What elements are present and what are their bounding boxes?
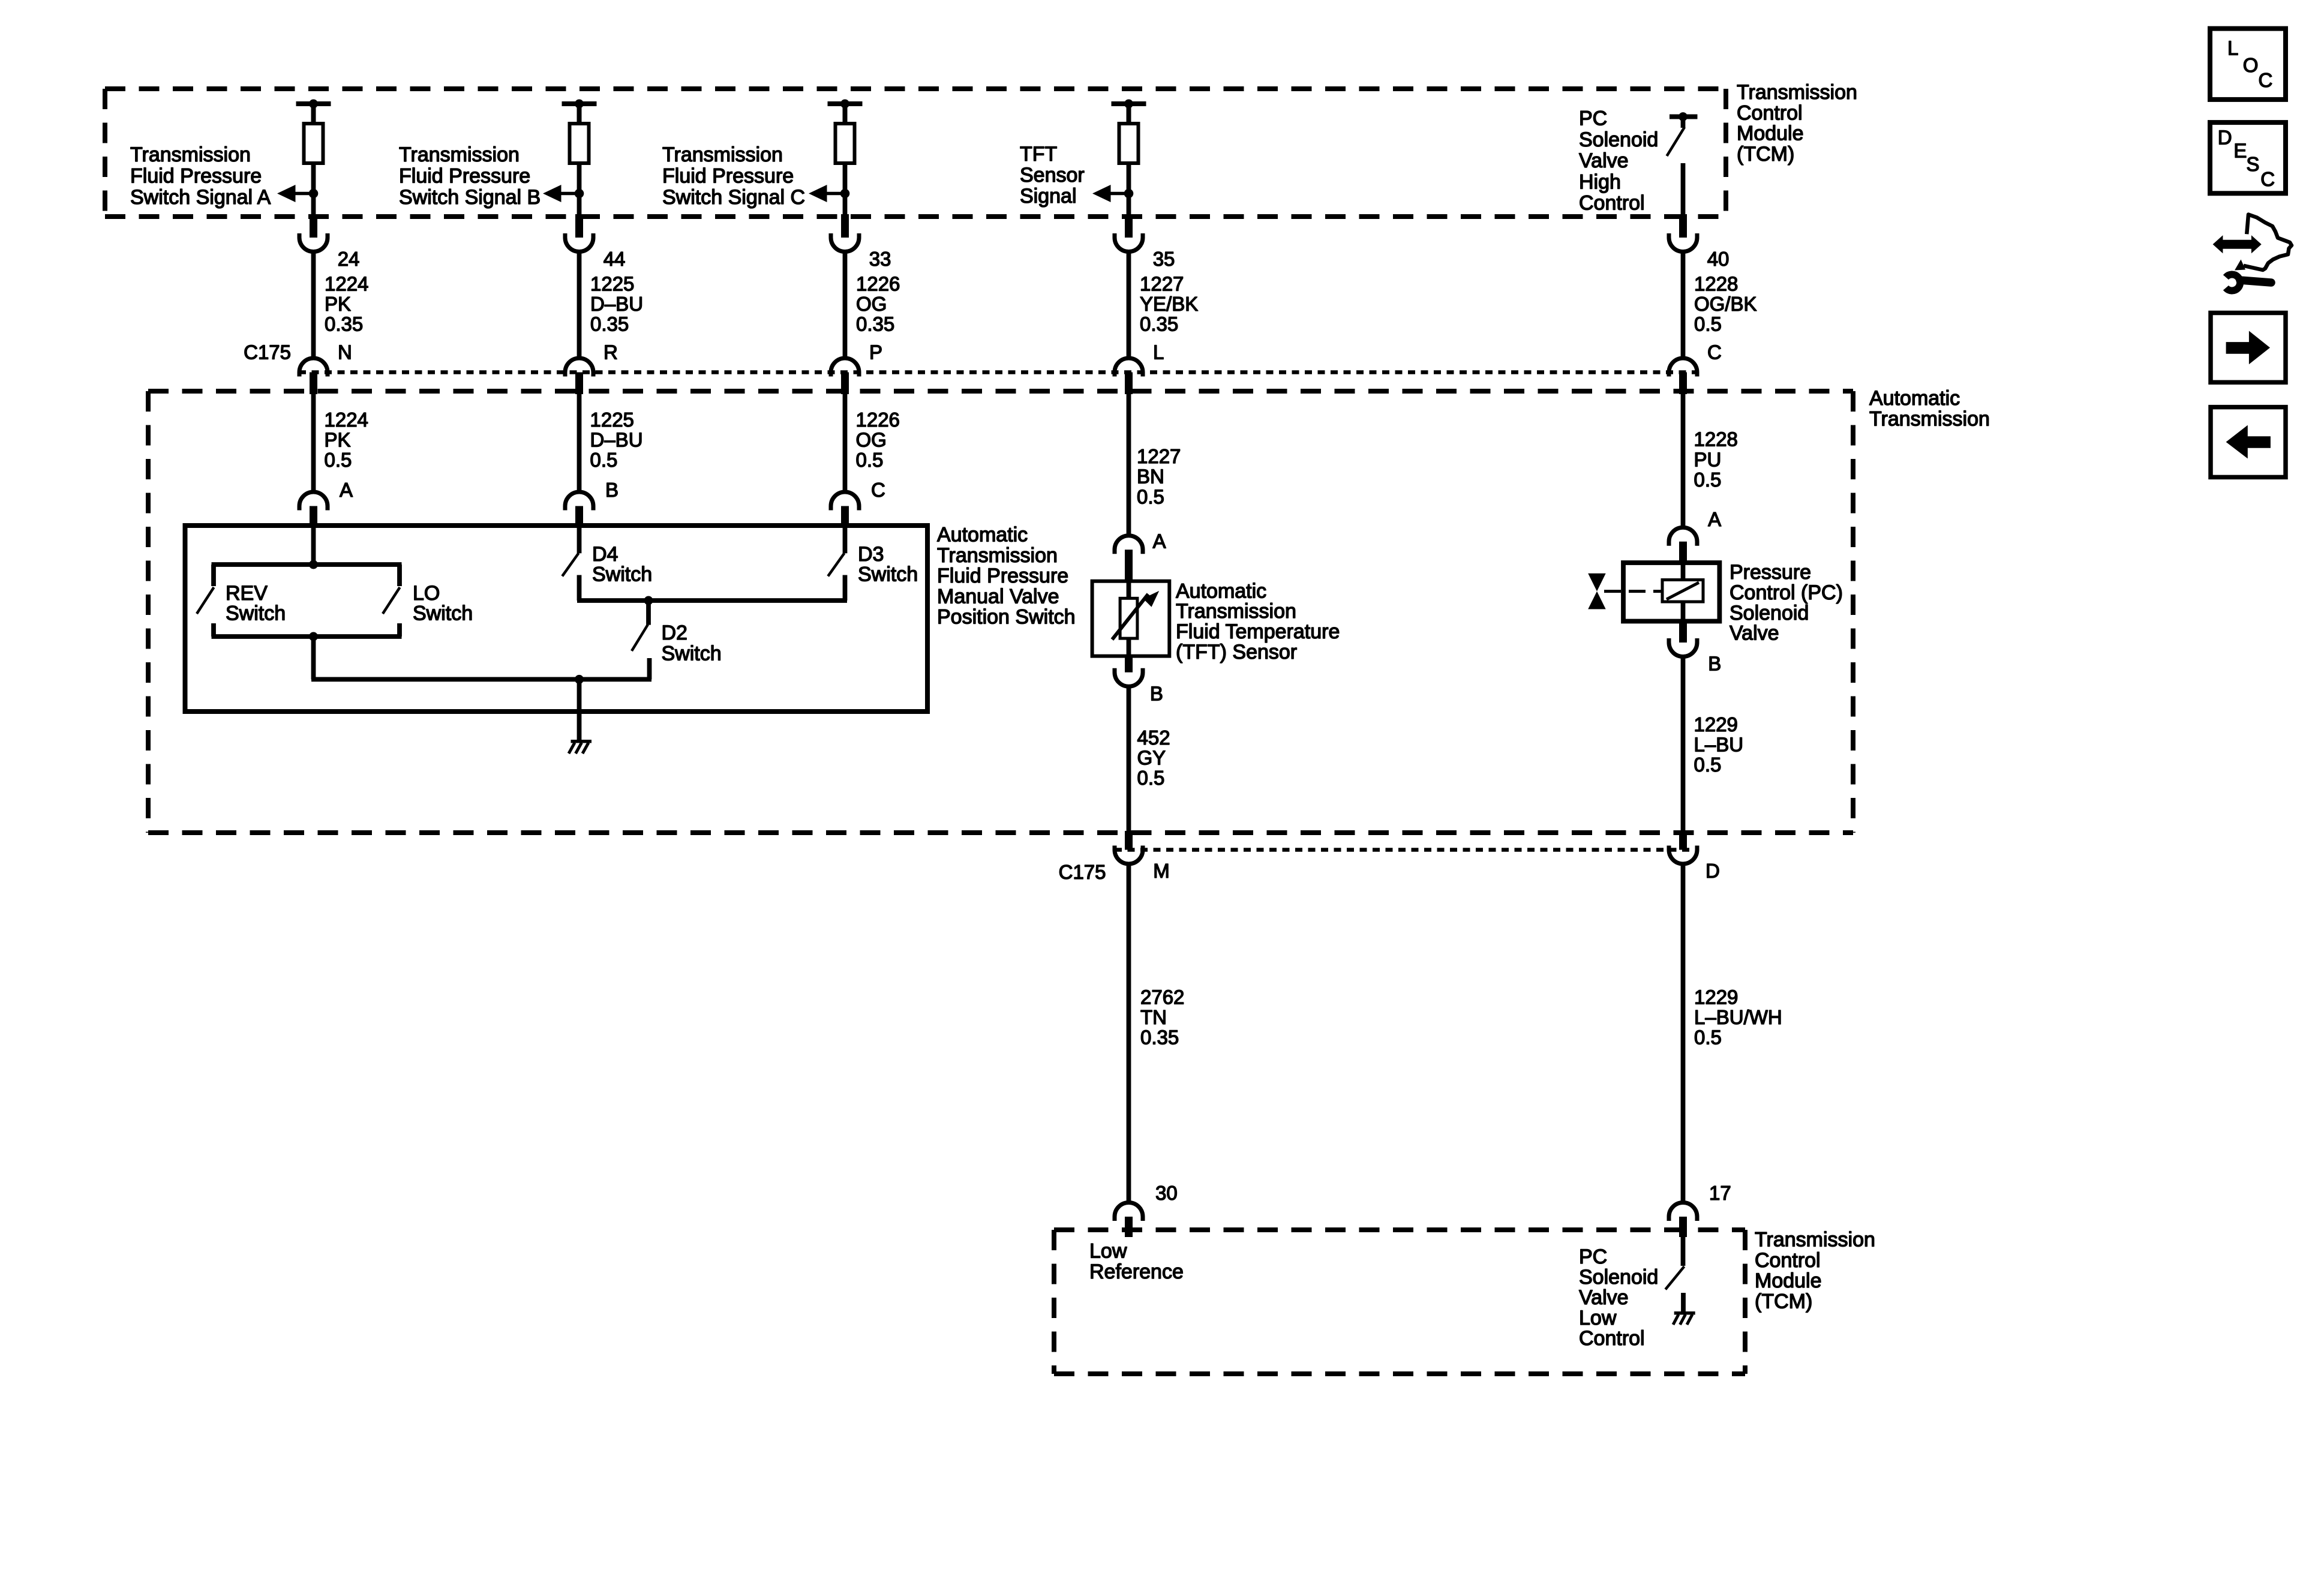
svg-text:D: D xyxy=(1706,860,1720,882)
pin 40 and wire 1228 OG/BK 0.5 xyxy=(1694,248,1757,335)
wire D4-D3 net xyxy=(577,596,847,605)
svg-text:Module: Module xyxy=(1755,1269,1822,1292)
dashed mechanical link valve-solenoid xyxy=(1604,590,1662,593)
svg-text:1226: 1226 xyxy=(856,409,900,431)
svg-text:0.35: 0.35 xyxy=(590,313,629,335)
wire 1224 PK 0.5 xyxy=(325,409,368,471)
svg-text:Solenoid: Solenoid xyxy=(1579,128,1658,151)
wire 1225 D-BU 0.5 xyxy=(590,409,643,471)
svg-text:Transmission: Transmission xyxy=(1176,600,1296,623)
svg-text:0.5: 0.5 xyxy=(1694,754,1722,776)
node: wire A junction top of REV/LO frame xyxy=(309,528,318,569)
label TFT Sensor Signal xyxy=(1020,143,1085,208)
svg-text:Control: Control xyxy=(1755,1249,1821,1272)
terminal stub col B row1 xyxy=(575,214,583,238)
svg-text:N: N xyxy=(338,341,352,363)
svg-text:Transmission: Transmission xyxy=(399,143,520,166)
wire col B C175 to terminal B xyxy=(577,394,582,493)
svg-text:D2: D2 xyxy=(662,622,687,644)
connector C175 dotted line top xyxy=(299,370,1698,374)
terminal arc B of TFT sensor xyxy=(1115,668,1143,687)
wire crossbar col B xyxy=(562,100,597,109)
svg-text:GY: GY xyxy=(1137,747,1166,769)
pin 24 and wire 1224 PK 0.35 xyxy=(325,248,368,335)
label PC Solenoid Valve Low Control xyxy=(1579,1245,1658,1350)
svg-text:1225: 1225 xyxy=(590,409,634,431)
terminal arc PC row1 (terminal 40) xyxy=(1669,233,1697,251)
svg-text:0.35: 0.35 xyxy=(325,313,363,335)
icon forward arrow box xyxy=(2211,313,2286,383)
svg-text:R: R xyxy=(603,341,618,363)
svg-text:Switch: Switch xyxy=(592,563,652,586)
wire D down to TCM xyxy=(1681,864,1686,1203)
svg-text:OG: OG xyxy=(856,429,887,451)
wire crossbar col C xyxy=(828,100,863,109)
svg-text:D: D xyxy=(2218,126,2232,148)
wire 452 GY 0.5 xyxy=(1137,727,1170,789)
svg-text:C175: C175 xyxy=(1059,861,1106,883)
svg-text:C175: C175 xyxy=(244,341,291,363)
svg-text:1224: 1224 xyxy=(325,273,368,295)
svg-text:17: 17 xyxy=(1709,1182,1731,1204)
svg-text:Automatic: Automatic xyxy=(1176,580,1266,602)
C175 arc col T xyxy=(1115,358,1143,394)
svg-text:40: 40 xyxy=(1707,248,1730,270)
wire 1228 PU 0.5 xyxy=(1694,428,1738,491)
svg-text:Solenoid: Solenoid xyxy=(1730,602,1809,625)
svg-text:TN: TN xyxy=(1140,1006,1167,1028)
terminal arc col C row1 xyxy=(831,233,859,251)
icon adjustable component (double arrow + wrench + outline) xyxy=(2213,215,2292,291)
svg-text:0.35: 0.35 xyxy=(1140,1026,1179,1048)
terminal stub B of PC solenoid valve xyxy=(1679,622,1687,643)
terminal arc A of TFT sensor xyxy=(1115,536,1143,582)
svg-text:33: 33 xyxy=(869,248,891,270)
terminal arc B (manual valve position switch) xyxy=(565,492,593,528)
svg-text:Transmission: Transmission xyxy=(1755,1228,1875,1251)
wire PC col to box edge xyxy=(1681,163,1686,217)
svg-text:24: 24 xyxy=(338,248,360,270)
label D4 Switch xyxy=(592,543,652,586)
wire col C to C175 xyxy=(843,252,848,359)
svg-text:1227: 1227 xyxy=(1137,445,1181,467)
svg-text:M: M xyxy=(1153,860,1170,882)
REV switch blade xyxy=(197,587,214,614)
svg-text:1229: 1229 xyxy=(1694,713,1738,736)
svg-text:Control: Control xyxy=(1737,101,1803,124)
wire PC B to AT box edge xyxy=(1681,657,1686,831)
svg-text:O: O xyxy=(2243,54,2259,76)
svg-text:Switch: Switch xyxy=(226,602,286,625)
svg-text:Switch Signal C: Switch Signal C xyxy=(662,186,805,209)
svg-text:1227: 1227 xyxy=(1140,273,1184,295)
svg-text:Control (PC): Control (PC) xyxy=(1730,581,1843,604)
resistor col T (TCM internal) xyxy=(1119,104,1139,163)
svg-text:PU: PU xyxy=(1694,448,1722,470)
svg-text:PC: PC xyxy=(1579,107,1607,130)
svg-text:0.5: 0.5 xyxy=(1694,469,1722,491)
icon back arrow box xyxy=(2211,407,2286,478)
svg-text:Control: Control xyxy=(1579,1327,1645,1350)
svg-text:A: A xyxy=(340,479,353,501)
svg-text:A: A xyxy=(1153,530,1166,553)
label Transmission Fluid Pressure Switch Signal C xyxy=(662,143,805,209)
inner REV/LO switch frame xyxy=(212,565,402,637)
terminal stub PC row1 xyxy=(1679,214,1687,238)
terminal arc col B row1 xyxy=(565,233,593,251)
C175 arc col C xyxy=(831,358,859,394)
terminal stub col T row1 xyxy=(1125,214,1133,238)
terminal arc A of PC solenoid valve xyxy=(1669,527,1697,564)
TCM top box (Transmission Control Module) dashed outline xyxy=(105,89,1726,217)
wire TFT col C175 to terminal A xyxy=(1127,394,1131,536)
wire col C C175 to terminal C xyxy=(843,394,848,493)
svg-text:(TCM): (TCM) xyxy=(1737,143,1794,166)
svg-text:Transmission: Transmission xyxy=(1737,81,1857,104)
svg-text:C: C xyxy=(2260,168,2275,190)
valve bowtie symbol xyxy=(1588,574,1606,610)
PC solenoid valve high control switch (TCM internal) xyxy=(1667,112,1698,156)
PC solenoid valve box xyxy=(1623,563,1719,622)
svg-text:High: High xyxy=(1579,170,1621,193)
svg-text:30: 30 xyxy=(1155,1182,1178,1204)
svg-text:D4: D4 xyxy=(592,543,618,566)
label D3 Switch xyxy=(858,543,918,586)
svg-text:PK: PK xyxy=(325,293,351,315)
svg-text:B: B xyxy=(605,479,618,501)
svg-text:TFT: TFT xyxy=(1020,143,1057,166)
TFT variable-resistor arrow xyxy=(1112,591,1159,640)
D2 switch xyxy=(632,601,650,679)
wire 1226 OG 0.5 xyxy=(856,409,900,471)
svg-text:1228: 1228 xyxy=(1694,273,1738,295)
svg-text:(TCM): (TCM) xyxy=(1755,1290,1812,1313)
svg-text:L–BU: L–BU xyxy=(1694,734,1744,756)
label Automatic Transmission Fluid Temperature (TFT) Sensor xyxy=(1176,580,1340,664)
svg-text:Fluid Temperature: Fluid Temperature xyxy=(1176,620,1340,643)
svg-text:Fluid Pressure: Fluid Pressure xyxy=(130,165,262,188)
svg-text:L: L xyxy=(1153,341,1164,363)
svg-text:P: P xyxy=(869,341,882,363)
svg-text:Fluid Pressure: Fluid Pressure xyxy=(662,165,794,188)
terminal arc bottom TCM (D col) xyxy=(1669,1202,1697,1237)
svg-text:Switch: Switch xyxy=(662,642,722,665)
svg-text:REV: REV xyxy=(226,582,268,605)
svg-text:Transmission: Transmission xyxy=(937,544,1058,567)
svg-text:0.5: 0.5 xyxy=(590,449,618,471)
svg-text:Transmission: Transmission xyxy=(130,143,251,166)
svg-text:OG/BK: OG/BK xyxy=(1694,293,1757,315)
svg-text:Manual Valve: Manual Valve xyxy=(937,585,1059,608)
label Transmission Control Module (TCM) bottom xyxy=(1755,1228,1875,1313)
svg-text:E: E xyxy=(2233,139,2247,161)
svg-text:S: S xyxy=(2246,153,2259,175)
C175 arc col B xyxy=(565,358,593,394)
svg-text:C: C xyxy=(2259,69,2273,91)
ground wire from switch box xyxy=(577,679,582,740)
node: junction bottom of REV/LO frame xyxy=(309,632,318,680)
svg-text:Position Switch: Position Switch xyxy=(937,606,1076,629)
svg-text:Transmission: Transmission xyxy=(662,143,783,166)
icon DESC box xyxy=(2210,122,2286,193)
resistor col C (TCM internal) xyxy=(836,104,855,163)
wire TFT B to AT box edge xyxy=(1127,686,1131,831)
terminal arc A (manual valve position switch) xyxy=(299,492,328,528)
D4 switch xyxy=(562,528,579,601)
svg-text:0.5: 0.5 xyxy=(1137,485,1164,508)
svg-text:Switch Signal B: Switch Signal B xyxy=(399,186,541,209)
connector label C175 bottom xyxy=(1059,861,1106,883)
svg-text:1225: 1225 xyxy=(590,273,634,295)
wire 1229 L-BU 0.5 xyxy=(1694,713,1744,776)
wire col C resistor to junction xyxy=(843,163,848,217)
wire 1229 L-BU/WH 0.5 xyxy=(1694,986,1782,1048)
label Transmission Fluid Pressure Switch Signal A xyxy=(130,143,271,209)
label Automatic Transmission Fluid Pressure Manual Valve Position Switch xyxy=(937,524,1076,629)
svg-text:Valve: Valve xyxy=(1579,1286,1629,1309)
svg-text:Reference: Reference xyxy=(1089,1260,1184,1283)
terminal stub col C row1 xyxy=(841,214,849,238)
svg-text:1224: 1224 xyxy=(325,409,368,431)
svg-text:0.5: 0.5 xyxy=(1694,1026,1722,1048)
wire col T to C175 xyxy=(1127,252,1131,359)
svg-text:L: L xyxy=(2227,37,2238,59)
svg-text:YE/BK: YE/BK xyxy=(1140,293,1198,315)
svg-text:1228: 1228 xyxy=(1694,428,1738,451)
svg-text:B: B xyxy=(1150,682,1163,704)
C175 bottom connector D xyxy=(1669,831,1697,864)
signal tap arrow col B xyxy=(543,185,584,202)
svg-text:B: B xyxy=(1708,652,1721,674)
svg-text:D–BU: D–BU xyxy=(590,429,643,451)
wire PC col C175 to terminal A xyxy=(1681,394,1686,528)
wire crossbar col T xyxy=(1112,100,1146,109)
svg-text:Control: Control xyxy=(1579,192,1645,215)
C175 arc col A xyxy=(299,358,328,394)
terminal stub B of TFT sensor xyxy=(1125,656,1133,673)
pin 33 and wire 1226 OG 0.35 xyxy=(856,248,900,335)
wire 2762 TN 0.35 xyxy=(1140,986,1184,1048)
label D2 Switch xyxy=(662,622,722,665)
solenoid coil rect with diagonal xyxy=(1662,580,1703,622)
signal tap arrow col T xyxy=(1092,185,1133,202)
wire col T resistor to junction xyxy=(1127,163,1131,217)
svg-text:C: C xyxy=(1707,341,1722,363)
svg-text:Transmission: Transmission xyxy=(1869,407,1990,430)
svg-text:1226: 1226 xyxy=(856,273,900,295)
svg-text:OG: OG xyxy=(856,293,887,315)
svg-text:Low: Low xyxy=(1089,1240,1127,1263)
D3 switch xyxy=(828,528,845,601)
terminal arc col A row1 xyxy=(299,233,328,251)
wire M down to TCM xyxy=(1127,864,1131,1203)
wire col A to C175 xyxy=(311,252,316,359)
label LO Switch xyxy=(413,582,473,625)
svg-text:452: 452 xyxy=(1137,727,1170,749)
svg-text:LO: LO xyxy=(413,582,440,605)
TFT sensor box xyxy=(1092,581,1170,656)
svg-text:Switch: Switch xyxy=(858,563,918,586)
terminal stub col A row1 xyxy=(310,214,317,238)
svg-text:Module: Module xyxy=(1737,122,1804,145)
Automatic Transmission dashed box xyxy=(148,391,1853,833)
svg-text:0.5: 0.5 xyxy=(1137,767,1165,789)
terminal arc bottom TCM (M col) xyxy=(1115,1202,1143,1237)
svg-text:0.35: 0.35 xyxy=(1140,313,1178,335)
svg-text:Valve: Valve xyxy=(1730,622,1779,645)
svg-text:Switch Signal A: Switch Signal A xyxy=(130,186,271,209)
svg-text:2762: 2762 xyxy=(1140,986,1184,1008)
terminal arc C (manual valve position switch) xyxy=(831,492,859,528)
svg-text:0.5: 0.5 xyxy=(1694,313,1722,335)
label Transmission Control Module (TCM) top xyxy=(1737,81,1857,166)
svg-text:A: A xyxy=(1708,508,1721,530)
svg-text:L–BU/WH: L–BU/WH xyxy=(1694,1006,1782,1028)
svg-text:C: C xyxy=(871,479,885,501)
PC solenoid valve low control switch (TCM internal) xyxy=(1665,1236,1684,1312)
pin 35 and wire 1227 YE/BK 0.35 xyxy=(1140,248,1198,335)
label Automatic Transmission (box) xyxy=(1869,387,1990,430)
terminal arc B of PC solenoid valve xyxy=(1669,638,1697,657)
svg-text:(TFT) Sensor: (TFT) Sensor xyxy=(1176,641,1297,664)
terminal arc col T row1 xyxy=(1115,233,1143,251)
svg-text:Pressure: Pressure xyxy=(1730,561,1811,584)
svg-text:Switch: Switch xyxy=(413,602,473,625)
svg-text:44: 44 xyxy=(603,248,626,270)
signal tap arrow col C xyxy=(809,185,849,202)
svg-text:0.5: 0.5 xyxy=(325,449,352,471)
pin 44 and wire 1225 D-BU 0.35 xyxy=(590,248,643,335)
svg-text:Fluid Pressure: Fluid Pressure xyxy=(399,165,530,188)
svg-text:Fluid Pressure: Fluid Pressure xyxy=(937,565,1068,587)
connector label C175 top xyxy=(244,341,291,363)
LO switch blade xyxy=(383,587,400,614)
ground symbol (position switch) xyxy=(569,740,591,754)
label Transmission Fluid Pressure Switch Signal B xyxy=(399,143,541,209)
icon LOC box xyxy=(2210,29,2286,100)
svg-text:Automatic: Automatic xyxy=(1869,387,1960,410)
svg-text:Low: Low xyxy=(1579,1307,1617,1329)
label Pressure Control (PC) Solenoid Valve xyxy=(1730,561,1843,645)
resistor col A (TCM internal) xyxy=(304,104,323,163)
svg-text:1229: 1229 xyxy=(1694,986,1738,1008)
wire col A resistor to junction xyxy=(311,163,316,217)
wire lower net to D2 xyxy=(311,675,651,684)
svg-text:Sensor: Sensor xyxy=(1020,164,1085,187)
svg-text:35: 35 xyxy=(1153,248,1175,270)
signal tap arrow col A xyxy=(277,185,318,202)
ground symbol (TCM low control) xyxy=(1673,1311,1695,1325)
label REV Switch xyxy=(226,582,286,625)
label Low Reference xyxy=(1089,1240,1184,1283)
svg-text:PK: PK xyxy=(325,429,351,451)
resistor col B (TCM internal) xyxy=(570,104,589,163)
wire PC col to C175 xyxy=(1681,252,1686,359)
wire col B resistor to junction xyxy=(577,163,582,217)
svg-text:0.35: 0.35 xyxy=(856,313,894,335)
Automatic Transmission Fluid Pressure Manual Valve Position Switch box xyxy=(185,526,928,712)
svg-text:Solenoid: Solenoid xyxy=(1579,1266,1658,1289)
svg-text:BN: BN xyxy=(1137,466,1164,488)
svg-text:Automatic: Automatic xyxy=(937,524,1028,547)
svg-text:Valve: Valve xyxy=(1579,149,1629,172)
svg-text:Signal: Signal xyxy=(1020,185,1077,208)
svg-text:PC: PC xyxy=(1579,1245,1607,1268)
wire crossbar col A xyxy=(296,100,331,109)
label PC Solenoid Valve High Control xyxy=(1579,107,1658,215)
C175 arc PC col (cavity C) xyxy=(1669,358,1697,394)
wire 1227 BN 0.5 xyxy=(1137,445,1181,508)
TCM bottom box dashed outline xyxy=(1054,1230,1745,1374)
svg-text:D–BU: D–BU xyxy=(590,293,643,315)
connector C175 dotted line bottom xyxy=(1115,848,1698,852)
wire col A C175 to terminal A xyxy=(311,394,316,493)
C175 bottom connector M xyxy=(1115,831,1143,864)
wire col B to C175 xyxy=(577,252,582,359)
svg-text:0.5: 0.5 xyxy=(856,449,884,471)
svg-text:D3: D3 xyxy=(858,543,884,566)
